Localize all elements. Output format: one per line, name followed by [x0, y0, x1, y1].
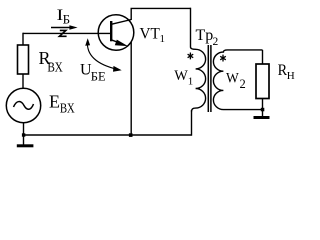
ground (input) — [17, 144, 34, 147]
wire Rн top — [262, 50, 264, 64]
wire bottom rail — [24, 134, 192, 136]
wire Rвх bottom to source — [22, 74, 24, 89]
wire transformer left terminal — [190, 8, 192, 48]
svg-text:1: 1 — [188, 75, 194, 87]
ground (output) — [254, 116, 270, 119]
polarity star W1 — [188, 53, 194, 60]
winding W1 — [191, 47, 206, 112]
svg-text:2: 2 — [240, 77, 246, 91]
svg-text:БЕ: БЕ — [91, 69, 106, 83]
wire top rail — [131, 7, 191, 9]
label W2 — [226, 71, 246, 92]
svg-text:VT: VT — [140, 25, 161, 42]
wire Rн bottom to ground — [262, 99, 264, 117]
current arrow Iб — [51, 25, 78, 29]
svg-text:Б: Б — [63, 11, 70, 26]
wire W1 bottom down to rail — [191, 110, 193, 136]
label Iб — [57, 7, 71, 27]
svg-text:1: 1 — [160, 33, 166, 45]
svg-text:W: W — [226, 71, 240, 87]
svg-text:2: 2 — [213, 36, 219, 48]
svg-text:E: E — [49, 92, 60, 112]
transistor VT1 — [98, 15, 134, 51]
junction input bottom — [22, 133, 25, 136]
transformer Tp2 core — [208, 45, 211, 112]
svg-text:ВХ: ВХ — [60, 101, 75, 116]
label VT1 — [140, 25, 166, 45]
label Rвх — [39, 48, 63, 76]
wire source bottom to ground — [23, 123, 25, 145]
polarity star W2 — [220, 55, 226, 62]
label Tp2 — [196, 27, 219, 48]
svg-text:ВХ: ВХ — [47, 61, 62, 76]
winding W2 — [213, 50, 262, 110]
label W1 — [174, 68, 193, 88]
wire input vertical to Rвх top — [22, 33, 24, 45]
svg-text:W: W — [174, 68, 188, 84]
junction emitter bottom — [129, 133, 133, 137]
resistor Rн — [256, 64, 269, 99]
wire emitter down — [130, 42, 132, 135]
junction output — [261, 108, 265, 112]
svg-text:Н: Н — [287, 70, 295, 82]
svg-text:Tp: Tp — [196, 27, 214, 44]
label Rн — [278, 62, 295, 82]
wire base from input corner to transistor base — [23, 32, 111, 34]
label Uбе — [80, 62, 106, 84]
resistor Rвх — [18, 45, 29, 74]
source Eвх — [6, 88, 40, 122]
label Eвх — [49, 92, 75, 117]
z-mark on base wire — [59, 30, 66, 36]
voltage arrow Uбе — [85, 38, 122, 72]
wire collector up — [130, 8, 132, 20]
